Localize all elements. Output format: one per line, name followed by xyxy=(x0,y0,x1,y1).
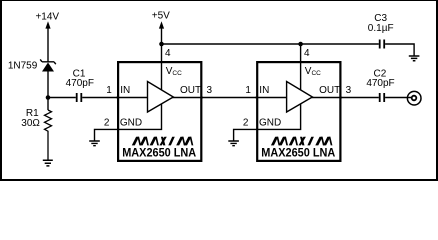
svg-text:0.1µF: 0.1µF xyxy=(368,23,394,34)
svg-text:+14V: +14V xyxy=(35,11,59,22)
svg-text:+5V: +5V xyxy=(152,11,170,22)
svg-text:30Ω: 30Ω xyxy=(21,118,40,129)
svg-text:1N759: 1N759 xyxy=(8,60,38,71)
svg-text:470pF: 470pF xyxy=(66,78,94,89)
svg-text:470pF: 470pF xyxy=(366,78,394,89)
